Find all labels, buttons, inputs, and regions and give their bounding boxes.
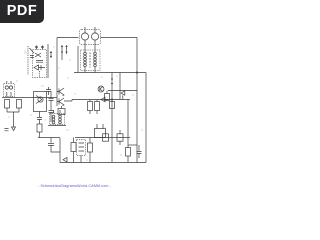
wire bus y137 left [38,137,60,139]
wire vertical x120 [119,73,121,100]
IC U2 [95,124,106,138]
transistor Q2 [57,98,64,106]
wire top bus left [57,37,79,39]
wire bus y137 right [75,137,130,139]
capacitor C2 [37,117,42,124]
diode D1 [101,97,108,102]
resistor R7 [103,134,109,141]
resistor R3 [88,100,93,115]
wire top bus right [101,37,138,39]
wire vertical x80 [77,46,79,73]
capacitor C3 [48,138,60,153]
node join [7,112,19,127]
wire right rail inner [145,73,147,163]
wire vertical x128 [127,100,129,138]
relay RL1 [50,110,65,125]
node dot B [136,72,137,73]
resistor R2 [17,100,22,113]
PDF badge [0,0,44,23]
resistor R5 [37,124,42,138]
wire bottom bus [60,162,146,164]
IC U1 [34,92,47,118]
wire mid bus y72 [74,72,146,74]
resistor R4 [95,100,100,115]
wire right rail outer [136,38,138,163]
wire vertical x60 bottomleft [59,138,61,163]
caption url [0,184,149,188]
fuse F1 [50,51,52,58]
resistor R10 [105,91,110,101]
transistor Q1 [57,88,64,96]
ballast unit B1 [33,46,47,78]
motor starter M1 [80,27,101,45]
resistor R11 [88,138,93,163]
wire relay bottom y125 [48,125,66,127]
resistor R1 [5,100,10,113]
label specks [8,47,143,160]
transformer T1 [81,45,101,73]
wire vertical x48 [47,44,49,78]
wire y145 right [128,144,137,146]
wire left bus y97 [2,97,57,99]
wire vertical x112 [111,73,113,163]
wire y90 right [108,90,137,92]
switch S1 [28,46,34,75]
fuse F3 [111,79,113,84]
wire center bus y99 [72,99,130,101]
capacitor C4 [137,145,142,158]
module X1 [58,106,65,115]
fuse F2 [61,45,68,54]
wire q out [64,100,72,102]
resistor R12 [110,102,115,109]
wire left vertical x57 [56,38,58,107]
wire vertical x62 [61,54,63,60]
diode D3 [63,158,67,163]
relay box L1 [4,81,15,97]
resistor R8 [117,130,123,145]
node dot A [111,99,112,100]
diode D2 [121,91,125,100]
transistor Q3 [98,86,104,92]
capacitor C5 [46,87,51,95]
resistor R9 [126,138,131,163]
capacitor C1 chain [49,91,54,122]
module B2 [77,140,86,163]
ground [5,127,16,131]
resistor R6 [71,138,76,163]
